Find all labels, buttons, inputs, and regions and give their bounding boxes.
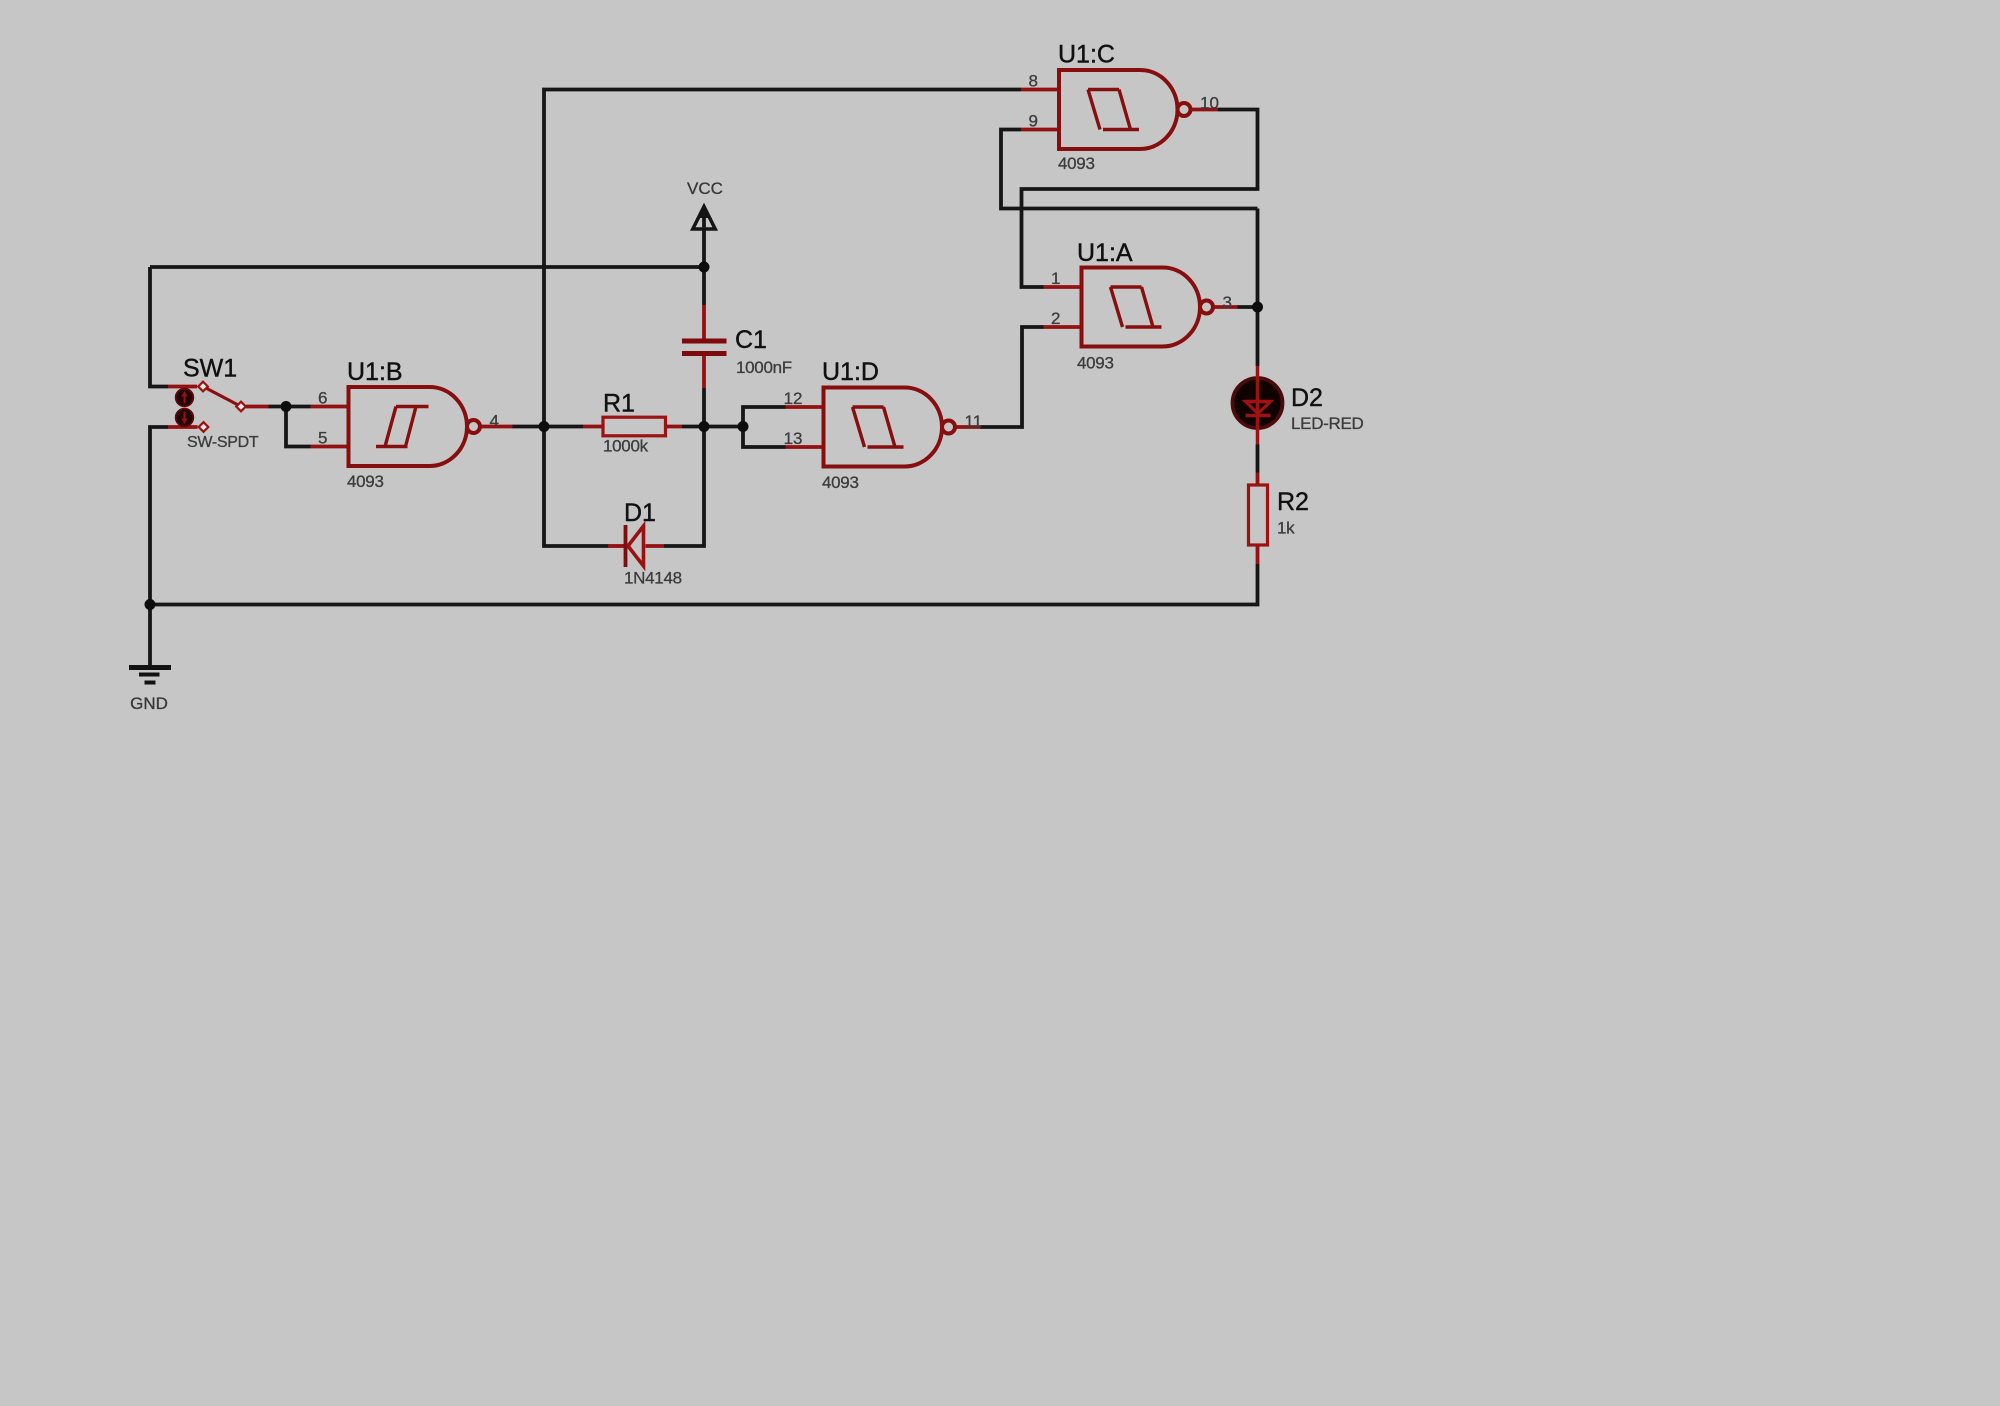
D1 left stub: [608, 544, 624, 548]
U1:D pin 12 stub: [786, 405, 824, 409]
junction node at SW1 pole / U1:B inputs: [281, 401, 292, 412]
D2 anode bar: [1245, 400, 1271, 403]
svg-text:4093: 4093: [1077, 354, 1114, 373]
U1:A schmitt symbol: [1111, 287, 1162, 327]
wire: U1:D input split to pins 12 and 13: [743, 407, 786, 447]
wire: node to U1:B pin 5: [286, 407, 311, 447]
SW1 top throw terminal: [198, 382, 208, 392]
SW1 bottom throw terminal: [199, 422, 209, 432]
svg-text:U1:A: U1:A: [1077, 239, 1133, 267]
U1:C pin 9 stub: [1021, 128, 1059, 132]
SW1 pole terminal: [236, 402, 246, 412]
svg-text:SW1: SW1: [183, 355, 237, 383]
C1 top stub: [702, 305, 706, 339]
U1:B gate body: [349, 387, 468, 466]
U1:B pin 6 stub: [311, 405, 349, 409]
wire: SW1 pole to U1:B pin 6: [269, 405, 311, 409]
wire: U1:C pin8 top rail and vertical down to node R1-left: [544, 90, 1021, 427]
svg-text:LED-RED: LED-RED: [1291, 414, 1364, 433]
svg-text:D2: D2: [1291, 384, 1323, 412]
U1:C output pin 10 stub: [1191, 108, 1219, 112]
wire: SW1 bottom throw to left rail down to GND: [150, 427, 168, 667]
ground symbol GND: [129, 668, 171, 683]
U1:D output pin 11 stub: [955, 425, 981, 429]
svg-text:U1:D: U1:D: [822, 358, 879, 386]
svg-text:9: 9: [1029, 112, 1038, 131]
NAND gate U1:B (4093 Schmitt, mirrored): [311, 358, 513, 491]
svg-text:1000nF: 1000nF: [736, 358, 792, 377]
SW1 top throw stub: [168, 385, 197, 389]
NAND gate U1:A (4093 Schmitt): [1044, 239, 1238, 373]
svg-text:R2: R2: [1277, 488, 1309, 516]
svg-text:U1:C: U1:C: [1058, 41, 1115, 69]
NAND gate U1:C (4093 Schmitt): [1021, 41, 1219, 174]
U1:A pin 1 stub: [1044, 285, 1082, 289]
wire: U1:C output feedback to U1:A pin 1: [1022, 110, 1258, 288]
capacitor C1: [682, 305, 792, 388]
U1:D gate body: [824, 388, 943, 467]
U1:C gate body: [1059, 70, 1178, 149]
U1:D schmitt symbol: [853, 407, 904, 447]
R1 left stub: [583, 425, 603, 429]
svg-text:13: 13: [784, 429, 803, 448]
svg-text:SW-SPDT: SW-SPDT: [187, 434, 259, 451]
wire: R1 right to U1:D input node: [682, 425, 743, 429]
junction node U1:B output / R1 / top rail / D1: [539, 421, 550, 432]
R2 top stub: [1256, 473, 1260, 486]
svg-text:C1: C1: [735, 326, 767, 354]
junction node R1 right / C1 bottom / D1 right: [699, 421, 710, 432]
C1 bottom stub: [702, 356, 706, 388]
svg-text:12: 12: [784, 389, 803, 408]
svg-text:VCC: VCC: [687, 179, 723, 198]
diode D1 1N4148: [608, 499, 682, 588]
SW1 actuator button up: [176, 389, 194, 407]
svg-text:R1: R1: [603, 390, 635, 418]
D2 body circle: [1233, 378, 1283, 428]
svg-text:4093: 4093: [1058, 154, 1095, 173]
wire: VCC symbol stem: [702, 211, 706, 267]
wire: node up and left to U1:C pin 9: [1001, 130, 1258, 209]
SW1 actuator button down: [176, 409, 194, 427]
svg-text:1: 1: [1051, 269, 1060, 288]
R2 body box: [1249, 485, 1268, 545]
svg-text:3: 3: [1223, 293, 1232, 312]
svg-text:1N4148: 1N4148: [624, 569, 682, 588]
U1:D pin 13 stub: [786, 445, 824, 449]
D2 lead shaft: [1256, 366, 1260, 445]
D1 anode triangle: [628, 526, 644, 566]
svg-text:D1: D1: [624, 499, 656, 527]
D2 triangle: [1246, 402, 1271, 414]
C1 bottom plate: [682, 351, 727, 356]
R2 bottom stub: [1256, 545, 1260, 564]
wire: left rail down to SW1 top throw: [150, 267, 168, 387]
C1 top plate: [682, 339, 727, 344]
SW1 bottom throw stub: [168, 425, 198, 429]
svg-text:U1:B: U1:B: [347, 358, 403, 386]
junction node U1:D inputs: [738, 421, 749, 432]
junction node at VCC rail / C1: [699, 262, 710, 273]
LED D2 red: [1233, 366, 1364, 445]
D1 cathode bar: [624, 525, 628, 567]
svg-text:GND: GND: [130, 694, 168, 713]
svg-text:5: 5: [318, 429, 327, 448]
U1:C pin 8 stub: [1021, 88, 1059, 92]
wire: node vertical down to D2 LED: [1256, 209, 1260, 367]
wire: node down and left lead of D1: [544, 427, 609, 547]
U1:A gate body: [1082, 268, 1201, 347]
U1:B pin 5 stub: [311, 445, 349, 449]
svg-text:4: 4: [490, 412, 499, 431]
switch SW1 SPDT: [168, 355, 269, 452]
svg-text:10: 10: [1200, 94, 1219, 113]
svg-text:4093: 4093: [347, 472, 384, 491]
R1 body box: [603, 417, 666, 436]
wire: D1 right lead up to node: [664, 427, 704, 547]
NAND gate U1:D (4093 Schmitt): [784, 358, 983, 492]
wire: ground rail to R2 bottom: [150, 564, 1258, 605]
resistor R2: [1249, 473, 1309, 565]
D2 cathode bar: [1246, 414, 1271, 417]
svg-text:1k: 1k: [1277, 519, 1295, 538]
VCC power symbol: [693, 205, 715, 229]
svg-text:11: 11: [965, 412, 983, 431]
U1:A pin 2 stub: [1044, 325, 1082, 329]
U1:A output bubble: [1200, 301, 1213, 314]
wire: U1:D output up to U1:A pin 2: [980, 327, 1044, 427]
junction node U1:A output / LED feed: [1252, 302, 1263, 313]
resistor R1: [583, 390, 682, 456]
D1 right stub: [646, 544, 665, 548]
R1 right stub: [666, 425, 683, 429]
svg-text:4093: 4093: [822, 473, 859, 492]
SW1 lever arm: [203, 387, 241, 407]
svg-text:2: 2: [1051, 309, 1060, 328]
wire: VCC junction down to C1 top: [702, 267, 706, 305]
svg-text:6: 6: [318, 389, 327, 408]
U1:A output pin 3 stub: [1213, 305, 1238, 309]
U1:B output pin 4 stub: [480, 425, 513, 429]
junction node ground rail / GND symbol: [145, 599, 156, 610]
svg-text:8: 8: [1029, 72, 1038, 91]
wire: C1 bottom to node: [702, 388, 706, 427]
U1:C schmitt symbol: [1088, 90, 1139, 130]
SW1 pole stub: [246, 405, 269, 409]
wire: VCC horizontal rail: [150, 265, 704, 269]
wire: D2 to R2: [1256, 445, 1260, 473]
U1:D output bubble: [942, 421, 955, 434]
wire: U1:A output to node: [1237, 305, 1258, 309]
wire: U1:B output to R1 left: [512, 425, 583, 429]
U1:C output bubble: [1178, 103, 1191, 116]
U1:B output bubble: [467, 420, 480, 433]
svg-text:1000k: 1000k: [603, 437, 649, 456]
U1:B schmitt symbol (mirrored): [376, 407, 429, 447]
